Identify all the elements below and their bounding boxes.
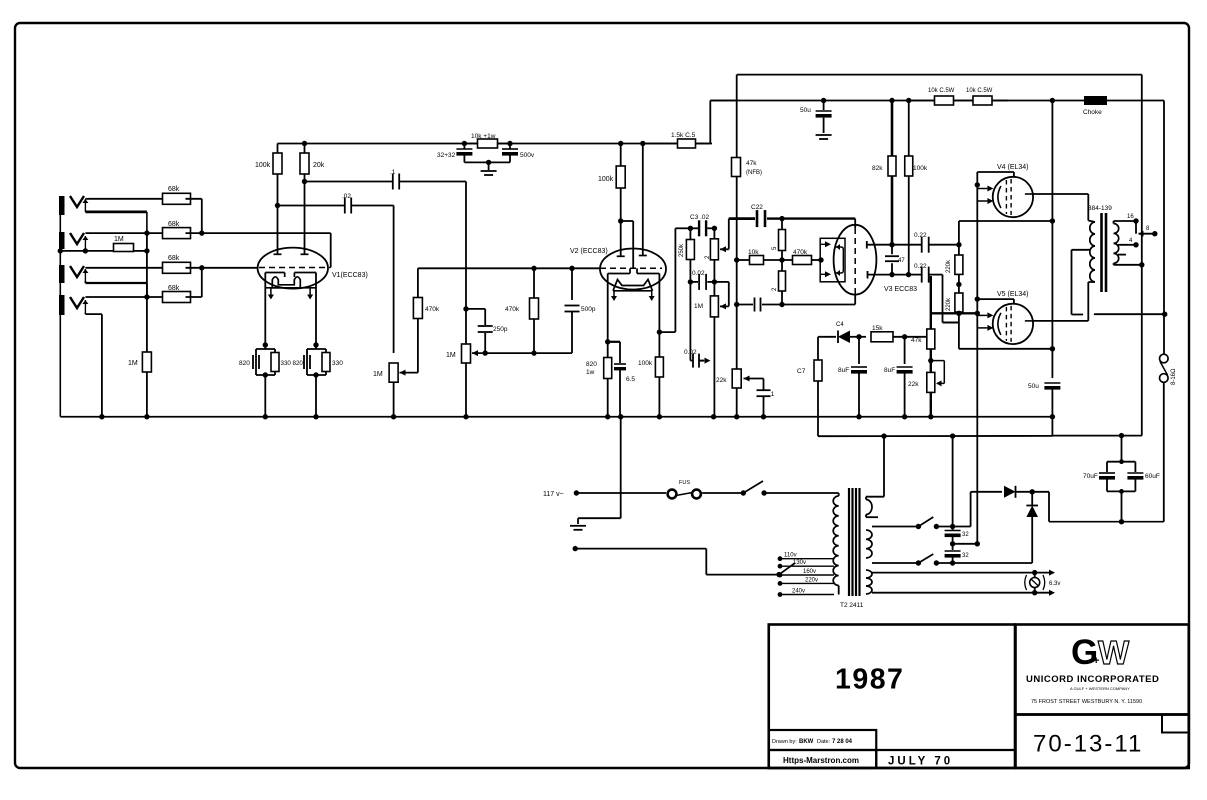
svg-text:250k: 250k xyxy=(679,243,685,257)
svg-text:75 FROST STREET WESTBURY N.: 75 FROST STREET WESTBURY N. Y. 11590 xyxy=(1031,699,1142,705)
HT top lead to standby switch xyxy=(872,526,918,528)
resistor 68k channel2 input2 xyxy=(163,292,191,303)
wire tone feed row xyxy=(675,227,690,229)
svg-text:6.5: 6.5 xyxy=(626,376,635,383)
tube V4 EL34 envelope xyxy=(993,177,1033,217)
HT bottom lead to standby switch xyxy=(872,562,918,564)
svg-text:T2 2411: T2 2411 xyxy=(840,602,864,609)
resistor 220k bias bleed xyxy=(814,360,822,381)
wire V1 grid B row xyxy=(202,267,258,269)
svg-text:22k: 22k xyxy=(716,377,727,384)
svg-text:Date:: Date: xyxy=(817,739,831,745)
input jack J3 xyxy=(59,265,65,283)
grid bias column V4/V5 xyxy=(958,221,960,255)
wire V5 screen feed row xyxy=(958,313,960,349)
svg-text:470k: 470k xyxy=(505,306,520,313)
treble pot 250k left branch xyxy=(689,228,691,240)
cap 0.1 presence xyxy=(763,379,765,391)
cap 8uF bias filter 1 xyxy=(858,337,860,364)
resistor 220k V5 grid xyxy=(955,293,963,312)
V1 cathode A network: resistor 820 / cap 330uF xyxy=(264,345,266,349)
main ground rail xyxy=(60,416,1052,418)
power transformer HT winding xyxy=(866,530,872,558)
svg-text:Https-Marstron.com: Https-Marstron.com xyxy=(783,756,859,765)
V3 plate B lead xyxy=(867,271,869,279)
svg-text:32: 32 xyxy=(962,553,969,559)
cap 250pF bright channel1 xyxy=(466,308,485,310)
bass pot wiper tap xyxy=(714,281,728,283)
resistor 1.5k B+ feed xyxy=(643,143,678,145)
resistor 68k channel1 input2 xyxy=(163,228,191,239)
cap 0.022 coupling to V5 grid xyxy=(909,274,922,276)
svg-text:V4 (EL34): V4 (EL34) xyxy=(997,164,1029,171)
V2 internal plates and cathode xyxy=(608,273,630,275)
resistor 47k NFB xyxy=(732,158,741,177)
resistor 10k screen feed 2 xyxy=(973,96,992,105)
mains switch xyxy=(741,490,746,495)
svg-text:70-13-11: 70-13-11 xyxy=(1033,731,1143,758)
svg-text:68k: 68k xyxy=(168,186,180,193)
svg-text:8uF: 8uF xyxy=(838,367,849,374)
V1 cathode lead B xyxy=(309,288,311,298)
svg-text:10k C.5W: 10k C.5W xyxy=(928,88,955,94)
svg-text:0.02: 0.02 xyxy=(692,270,705,277)
fuse 2A xyxy=(668,490,677,499)
svg-text:V3 ECC83: V3 ECC83 xyxy=(884,286,917,293)
resistor 100k V2B cathode xyxy=(658,332,660,357)
svg-text:820: 820 xyxy=(293,360,304,367)
wire V5 plate to OT xyxy=(1033,320,1088,322)
tube V5 EL34 envelope xyxy=(993,304,1033,344)
mains earth ground symbol xyxy=(570,525,586,527)
V3 grid input from treble line xyxy=(854,219,856,228)
svg-text:1.5k C.5: 1.5k C.5 xyxy=(671,132,696,139)
svg-text:1987: 1987 xyxy=(835,664,904,696)
tone slope column resistors 56k 12k xyxy=(781,219,783,230)
wire PI cathode row xyxy=(782,304,855,306)
svg-text:22k: 22k xyxy=(908,381,919,388)
screen rail right corner down to speaker jack xyxy=(1163,101,1165,355)
svg-text:16: 16 xyxy=(1127,214,1134,220)
svg-text:.1: .1 xyxy=(769,391,775,398)
svg-text:820: 820 xyxy=(239,360,250,367)
tube V1 ECC83 envelope xyxy=(258,248,328,289)
date cell JULY 70 xyxy=(875,750,877,768)
bias feed column xyxy=(976,172,978,544)
svg-text:220k: 220k xyxy=(946,297,952,311)
svg-text:32: 32 xyxy=(962,532,969,538)
svg-text:1M: 1M xyxy=(446,352,456,359)
NFB riser right xyxy=(1141,75,1143,436)
svg-text:50u: 50u xyxy=(800,107,811,114)
mains earth drop xyxy=(620,417,622,518)
wire doubler output xyxy=(1032,491,1049,493)
svg-text:6.3v: 6.3v xyxy=(1049,581,1060,587)
svg-text:10k +1w: 10k +1w xyxy=(471,133,496,140)
wire V2 plate column xyxy=(640,141,645,146)
svg-text:(NFB): (NFB) xyxy=(746,170,762,176)
tube V2 ECC83 envelope xyxy=(600,249,666,290)
svg-text:0.02: 0.02 xyxy=(684,349,697,356)
voltage selector blade xyxy=(779,563,795,575)
svg-text:.02: .02 xyxy=(342,193,351,200)
svg-text:10k: 10k xyxy=(748,249,759,256)
resistor 100k PI plate B xyxy=(908,101,910,157)
svg-text:C7: C7 xyxy=(797,368,806,375)
svg-text:10k C.5W: 10k C.5W xyxy=(966,88,993,94)
svg-text:20k: 20k xyxy=(313,162,325,169)
svg-text:384-139: 384-139 xyxy=(1088,205,1112,212)
svg-text:JULY 70: JULY 70 xyxy=(888,756,953,768)
V3 plate A lead xyxy=(866,241,868,249)
resistor 10k B+ dropper xyxy=(462,141,467,146)
output transformer secondary winding xyxy=(1114,223,1119,263)
coupling cap .02 V1B output xyxy=(305,181,393,183)
doubler cap 2 xyxy=(945,550,961,552)
V2 cathode lead B xyxy=(651,291,653,299)
resistor 20k V1 plate B xyxy=(302,141,307,146)
resistor 220k V4 grid xyxy=(955,255,963,274)
resistor 10k screen feed 1 xyxy=(909,100,935,102)
bias takeoff line xyxy=(883,436,885,497)
filter cap 500v xyxy=(509,144,511,150)
svg-text:820: 820 xyxy=(586,361,597,368)
svg-text:60uF: 60uF xyxy=(1145,473,1160,480)
volume pot 1M channel2 xyxy=(389,363,398,382)
cap 0.1 bass shunt xyxy=(737,304,753,306)
primary voltage taps xyxy=(780,558,834,560)
V1 internal plates and cathode xyxy=(265,272,284,274)
resistor 1M grid leak V1A xyxy=(142,352,151,372)
wire middle column down xyxy=(689,282,691,361)
svg-text:240v: 240v xyxy=(792,589,805,595)
svg-text:BKW: BKW xyxy=(799,739,814,745)
svg-text:1M: 1M xyxy=(694,303,703,310)
wire jack4 sleeve xyxy=(84,313,86,314)
V2 cathode A network: resistor 820 / cap xyxy=(605,339,610,344)
svg-text:V1(ECC83): V1(ECC83) xyxy=(332,272,368,279)
B+ column to OT center tap xyxy=(1051,101,1053,379)
svg-text:8uF: 8uF xyxy=(884,367,895,374)
screen/B+ rail2 xyxy=(710,100,1164,102)
svg-text:117 v~: 117 v~ xyxy=(543,491,564,498)
V2B cathode follower output jog xyxy=(657,329,662,334)
svg-text:68k: 68k xyxy=(168,255,180,262)
speaker jack xyxy=(1160,354,1169,363)
svg-text:500p: 500p xyxy=(581,306,596,313)
svg-text:UNICORD INCORPORATED: UNICORD INCORPORATED xyxy=(1026,674,1159,685)
svg-text:V5 (EL34): V5 (EL34) xyxy=(997,291,1029,298)
svg-text:1w: 1w xyxy=(586,369,595,376)
cap 8uF bias filter 2 xyxy=(904,337,906,364)
doubler cap 1 xyxy=(945,530,961,532)
wire B+ riser to screen rail xyxy=(709,101,711,144)
power transformer heater winding xyxy=(866,570,872,594)
wire jack3 tip row xyxy=(85,267,167,269)
resistor 1M input bleed xyxy=(60,250,113,252)
svg-text:V2 (ECC83): V2 (ECC83) xyxy=(570,248,608,255)
wire V2 grid line xyxy=(418,267,600,269)
drawing number box 70-13-11 xyxy=(1016,715,1189,769)
svg-text:470k: 470k xyxy=(793,249,808,256)
bias pot 22k xyxy=(927,372,935,392)
NFB riser and presence chain xyxy=(736,75,738,158)
resistor 47k bias xyxy=(927,329,935,349)
svg-text:330: 330 xyxy=(332,360,343,367)
svg-text:A GULF + WESTERN COMPANY: A GULF + WESTERN COMPANY xyxy=(1070,686,1130,691)
svg-text:470k: 470k xyxy=(425,306,440,313)
svg-text:50u: 50u xyxy=(1028,383,1039,390)
wire jack4 tip row xyxy=(85,296,167,298)
svg-text:1M: 1M xyxy=(128,360,138,367)
volume pot 1M channel1 xyxy=(463,306,468,311)
V3 cathode line to tail xyxy=(854,295,856,305)
cap 0.022 bass xyxy=(688,279,693,284)
website box xyxy=(769,750,877,768)
svg-text:8-16Ω: 8-16Ω xyxy=(1171,368,1177,385)
wire V5 grid feed xyxy=(977,298,1014,300)
svg-text:1M: 1M xyxy=(114,236,124,243)
choke xyxy=(1084,96,1107,105)
svg-text:220k: 220k xyxy=(946,259,952,273)
wire jack1 tip to grid resistor xyxy=(85,198,167,200)
heater line upper xyxy=(872,572,1050,574)
svg-text:15k: 15k xyxy=(872,325,883,332)
resistor 470k mixer channel1 xyxy=(533,268,535,297)
HT return rail xyxy=(1049,521,1164,523)
svg-text:330: 330 xyxy=(281,360,292,367)
svg-text:68k: 68k xyxy=(168,285,180,292)
svg-text:100k: 100k xyxy=(638,360,653,367)
pilot lamp xyxy=(1030,578,1040,588)
svg-text:0.22: 0.22 xyxy=(914,263,927,270)
rectifier diode main xyxy=(970,492,972,527)
V1 cathode B network: resistor 820 / cap 330uF xyxy=(315,345,317,349)
wire bias diode source column xyxy=(817,337,819,360)
resistor 68k channel2 input1 xyxy=(163,262,191,273)
svg-text:W: W xyxy=(1098,634,1130,671)
wire treble wiper riser xyxy=(728,219,730,250)
wire ground rail to NFB lower line xyxy=(1051,417,1053,436)
svg-text:C4: C4 xyxy=(836,322,844,328)
PT primary bottom lead xyxy=(838,586,840,595)
svg-text:100k: 100k xyxy=(598,176,614,183)
resistor 470k PI grid leak xyxy=(782,259,792,261)
power transformer primary winding xyxy=(838,493,840,496)
presence pot 22k xyxy=(732,369,741,388)
wire V1 grid A row xyxy=(202,232,331,234)
input jack J4 xyxy=(59,295,65,315)
jack ground bus wire xyxy=(59,198,61,417)
svg-text:70uF: 70uF xyxy=(1083,473,1098,480)
cap 0.022 treble xyxy=(690,227,698,229)
resistor 68k channel1 input1 xyxy=(163,193,191,204)
cap 500pF bright channel2 xyxy=(571,268,573,300)
output transformer primary winding xyxy=(1088,221,1095,223)
svg-text:Choke: Choke xyxy=(1083,109,1102,116)
title box 1987 xyxy=(769,625,1015,769)
treble pot 250k right branch with wiper xyxy=(713,228,715,239)
OT frame ground line xyxy=(1094,313,1165,315)
filter cap 50uF B+ xyxy=(823,101,825,111)
bias set column xyxy=(930,276,932,417)
resistor 100k V2 plate xyxy=(618,141,623,146)
power transformer core xyxy=(848,488,850,596)
mains neutral wire xyxy=(573,546,578,551)
bass pot 1M xyxy=(713,282,715,296)
coupling cap .02 V1A output xyxy=(278,205,345,207)
resistor 82k PI plate A xyxy=(891,101,894,157)
svg-text:47: 47 xyxy=(898,258,905,264)
cap 0.022 coupling to V4 grid xyxy=(892,244,922,246)
svg-text:C3 .02: C3 .02 xyxy=(690,214,710,221)
OT primary center tap xyxy=(1072,249,1090,251)
resistor 15k bias xyxy=(871,332,893,342)
power transformer bias tap winding xyxy=(866,500,872,515)
wire jack2 tip row xyxy=(85,232,167,234)
svg-text:47k: 47k xyxy=(746,160,757,167)
svg-text:C22: C22 xyxy=(751,204,763,211)
mains live wire xyxy=(574,490,579,495)
tube V3 ECC83 envelope xyxy=(834,225,877,295)
svg-text:500v: 500v xyxy=(520,152,535,159)
svg-text:47k: 47k xyxy=(911,337,922,344)
V1 cathode lead A xyxy=(270,288,272,298)
svg-text:160v: 160v xyxy=(803,569,816,575)
svg-text:68k: 68k xyxy=(168,221,180,228)
svg-text:1M: 1M xyxy=(373,371,383,378)
svg-text:Drawn by:: Drawn by: xyxy=(772,739,797,745)
svg-text:7 28 04: 7 28 04 xyxy=(832,739,853,745)
V2 cathode lead A xyxy=(613,291,615,299)
wire V4 plate to OT xyxy=(1033,193,1088,195)
wire grid leak column channel1 xyxy=(146,233,148,352)
input jack J1 xyxy=(59,196,65,215)
heater line lower xyxy=(872,592,1050,594)
OT secondary bottom lead xyxy=(1113,263,1115,265)
wire treble output line (bold) xyxy=(729,217,755,220)
bias rectifier diode xyxy=(818,336,836,338)
bias cap 50uF xyxy=(1044,382,1060,384)
svg-text:82k: 82k xyxy=(872,165,883,172)
svg-text:250p: 250p xyxy=(493,326,508,333)
svg-text:FUS: FUS xyxy=(679,480,690,486)
filter caps 70uF 60uF bracket xyxy=(1121,436,1123,462)
resistor 470k mixer channel2 xyxy=(417,319,419,373)
cap 47pF across PI plates xyxy=(891,245,893,255)
wire V4 grid feed xyxy=(977,171,1014,173)
filter caps ground xyxy=(464,161,510,163)
svg-text:130v: 130v xyxy=(793,560,806,566)
wire bias to grid resistors (bold) xyxy=(931,312,978,314)
diode shunt xyxy=(1026,506,1038,518)
svg-text:32+32: 32+32 xyxy=(437,152,456,159)
resistor 100k V1 plate A xyxy=(277,144,279,154)
output transformer core xyxy=(1100,213,1103,292)
svg-text:0.22: 0.22 xyxy=(914,232,927,239)
wire jack3 sleeve to common xyxy=(84,281,86,283)
cap 0.022 coupling to PI xyxy=(756,210,759,227)
OT secondary taps xyxy=(1113,221,1115,224)
input jack J2 xyxy=(59,232,65,249)
resistor 10k tail xyxy=(737,259,750,261)
svg-text:220v: 220v xyxy=(805,577,818,583)
svg-text:100k: 100k xyxy=(913,165,928,172)
NFB top rail xyxy=(737,74,1142,76)
svg-text:.1: .1 xyxy=(390,169,396,176)
svg-text:110v: 110v xyxy=(784,553,797,559)
wire jack1 sleeve down to common xyxy=(85,210,146,213)
logo box GW Unicord xyxy=(1016,625,1189,715)
cap 0.022 middle with wiper arrow xyxy=(690,360,693,362)
V3 grid structure box xyxy=(820,238,845,281)
B+ rail preamp xyxy=(278,143,713,145)
drawn-by box xyxy=(769,730,877,750)
svg-text:100k: 100k xyxy=(255,162,271,169)
filter cap 32uF xyxy=(463,144,465,150)
wire jack2 sleeve xyxy=(84,248,86,251)
